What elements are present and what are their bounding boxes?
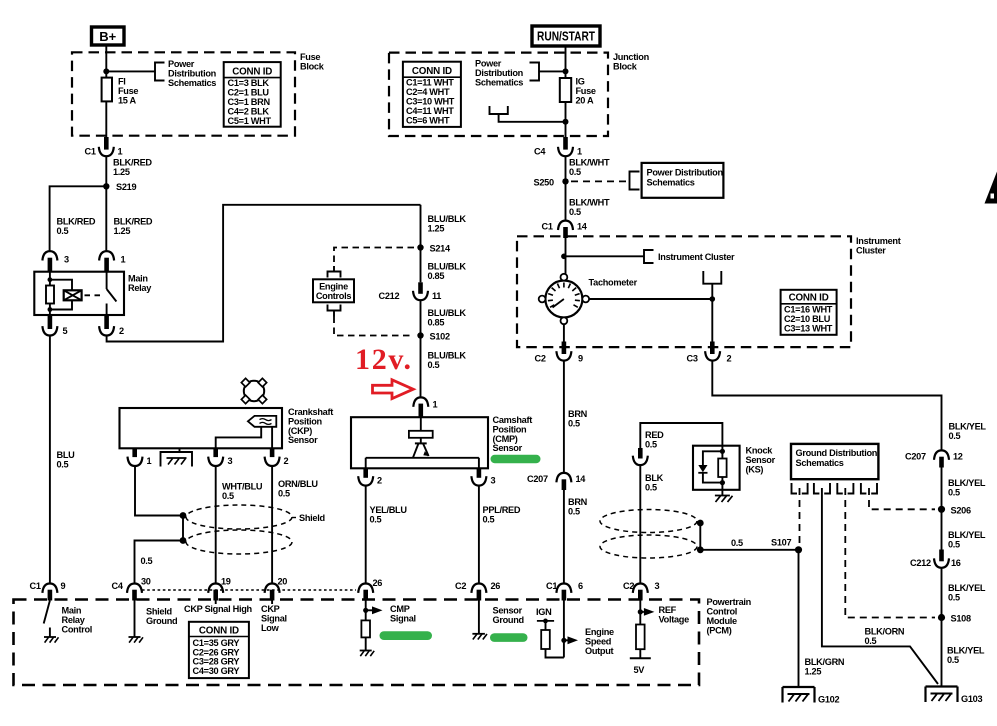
wire shield drain to S107: [700, 549, 798, 551]
svg-text:BLU/BLK: BLU/BLK: [428, 214, 467, 224]
svg-text:0.5: 0.5: [483, 515, 495, 525]
svg-text:S206: S206: [951, 505, 971, 515]
wire B+ down through fuse block: [105, 45, 107, 137]
wire label BLK 0.5: [645, 473, 664, 493]
svg-text:WHT/BLU: WHT/BLU: [222, 482, 263, 492]
CMP internal bus wire: [366, 458, 479, 469]
svg-text:Distribution: Distribution: [475, 68, 524, 78]
svg-text:Ground Distribution: Ground Distribution: [796, 448, 878, 458]
svg-text:C1=11 WHT: C1=11 WHT: [406, 77, 454, 87]
knock sensor internals: piezo + resistor: [698, 446, 726, 490]
PCM engine speed output with IGN pull-up: [536, 601, 614, 658]
svg-text:C1=16 WHT: C1=16 WHT: [784, 305, 833, 315]
wire label BLU/BLK 1.25: [428, 214, 467, 234]
svg-text:C2=10 BLU: C2=10 BLU: [784, 314, 831, 324]
svg-text:CONN ID: CONN ID: [412, 66, 452, 77]
svg-text:Signal: Signal: [261, 614, 287, 624]
node knock shield lower: [697, 546, 704, 553]
svg-text:C1: C1: [30, 581, 41, 591]
svg-text:16: 16: [951, 558, 961, 568]
svg-text:C1=3 BLK: C1=3 BLK: [228, 78, 270, 88]
svg-text:3: 3: [655, 581, 660, 591]
svg-text:C5=6 WHT: C5=6 WHT: [406, 116, 450, 126]
svg-text:Tachometer: Tachometer: [589, 278, 638, 288]
svg-text:YEL/BLU: YEL/BLU: [370, 505, 408, 515]
tachometer gauge: [539, 274, 638, 324]
connector C2 pin 26 (PCM): [455, 581, 500, 601]
svg-text:Relay: Relay: [128, 283, 152, 293]
wire C3 over to right column: [712, 361, 941, 451]
CKP pickup element: [248, 416, 276, 427]
svg-text:IG: IG: [576, 77, 585, 87]
svg-text:BLK/YEL: BLK/YEL: [947, 646, 985, 656]
svg-text:Power: Power: [475, 59, 502, 69]
CONN ID table instrument cluster: [781, 290, 837, 335]
engine controls box: [313, 279, 354, 302]
PCM dashed enclosure: [14, 600, 700, 686]
svg-text:C4: C4: [112, 581, 124, 591]
svg-text:C3=10 WHT: C3=10 WHT: [406, 97, 455, 107]
svg-text:12: 12: [953, 452, 963, 462]
svg-text:BLK/RED: BLK/RED: [57, 217, 96, 227]
wire label BLK/RED 1.25: [114, 217, 153, 237]
wire label YEL/BLU 0.5: [370, 505, 408, 525]
wire label BLK/RED 0.5: [57, 217, 96, 237]
svg-text:0.5: 0.5: [569, 167, 581, 177]
wire harness feed down to CMP sensor: [420, 205, 422, 282]
green highlight under Sensor Ground: [490, 633, 528, 642]
wire CKP pin2 signal low: [271, 466, 273, 583]
svg-text:12v.: 12v.: [355, 343, 413, 376]
svg-text:Control: Control: [62, 625, 93, 635]
svg-text:C5=1 WHT: C5=1 WHT: [228, 116, 272, 126]
node cluster feed tap: [561, 253, 567, 259]
svg-text:14: 14: [576, 474, 587, 484]
splice S108: [938, 614, 971, 624]
svg-text:C212: C212: [910, 558, 931, 568]
svg-text:2: 2: [119, 326, 124, 336]
svg-text:Instrument Cluster: Instrument Cluster: [658, 252, 735, 262]
wire CKP pin3 signal high: [215, 466, 217, 583]
svg-text:1.25: 1.25: [114, 226, 131, 236]
svg-text:S108: S108: [951, 614, 971, 624]
svg-text:Fuse: Fuse: [300, 52, 320, 62]
label Instrument Cluster (outside): [856, 236, 901, 256]
shield drain link: [699, 523, 701, 550]
wire S219 branch left: [50, 186, 107, 251]
ground distribution stub 2: [814, 483, 830, 494]
wire stub2 BLK/ORN to G103: [822, 488, 938, 684]
green highlight under CMP Signal: [380, 631, 433, 640]
svg-text:C3=13 WHT: C3=13 WHT: [784, 324, 833, 334]
wire label BLK/YEL 0.5 (top right): [949, 422, 987, 442]
svg-text:Knock: Knock: [746, 446, 774, 456]
label Powertrain Control Module (PCM): [707, 597, 752, 636]
svg-text:Schematics: Schematics: [475, 78, 523, 88]
PCM main relay control driver: [44, 601, 92, 643]
connector pin 19 (PCM): [208, 577, 231, 601]
svg-text:Shield: Shield: [299, 513, 325, 523]
wire label BLU/BLK 0.5: [428, 351, 467, 371]
svg-text:20: 20: [278, 577, 288, 587]
node tach wire to C3: [710, 296, 716, 302]
power distribution schematics reference box: [642, 163, 724, 198]
svg-text:Instrument: Instrument: [856, 236, 901, 246]
wire label BLK/RED 1.25: [113, 158, 152, 178]
svg-text:0.5: 0.5: [428, 360, 440, 370]
svg-text:Engine: Engine: [585, 627, 614, 637]
svg-text:CMP: CMP: [390, 604, 410, 614]
svg-text:26: 26: [373, 578, 383, 588]
svg-text:5: 5: [63, 326, 68, 336]
svg-text:(PCM): (PCM): [707, 626, 732, 636]
bracket power distribution schematics (fuse block): [155, 63, 165, 81]
svg-text:Sensor: Sensor: [746, 455, 776, 465]
inline connector knock sensor: [633, 448, 648, 465]
node power distribution tap (junction block): [563, 68, 569, 74]
svg-text:3: 3: [491, 476, 496, 486]
svg-text:C2=1 BLU: C2=1 BLU: [228, 87, 270, 97]
wire CMP pin3 to PCM C2-26: [478, 486, 480, 584]
wire C207-14 to PCM C1-6: [563, 490, 565, 583]
svg-text:0.5: 0.5: [57, 460, 69, 470]
svg-text:Control: Control: [707, 607, 738, 617]
knock sensor ground: [715, 490, 733, 502]
camshaft position CMP sensor box: [351, 417, 488, 468]
svg-text:CONN ID: CONN ID: [789, 293, 829, 304]
svg-text:S250: S250: [534, 178, 554, 188]
svg-text:Schematics: Schematics: [647, 178, 695, 188]
wire C1 to S219: [105, 156, 107, 251]
svg-text:IGN: IGN: [536, 607, 552, 617]
crankshaft position CKP sensor box: [120, 408, 283, 448]
connector pin 1 CMP (top): [413, 397, 437, 417]
svg-text:1: 1: [118, 147, 123, 157]
svg-text:Main: Main: [128, 274, 148, 284]
splice S214: [417, 244, 451, 254]
svg-text:1: 1: [433, 400, 438, 410]
svg-text:C212: C212: [379, 291, 400, 301]
cluster internal stub above C3: [703, 271, 721, 284]
svg-text:0.5: 0.5: [278, 489, 290, 499]
connector pin 5 main relay: [42, 315, 67, 336]
svg-text:0.5: 0.5: [645, 483, 657, 493]
connector pin 2 CMP: [358, 468, 382, 485]
svg-text:Controls: Controls: [316, 291, 352, 301]
svg-text:9: 9: [578, 354, 583, 364]
svg-text:26: 26: [491, 581, 501, 591]
wire CKP pin1 shield drain: [135, 466, 184, 583]
CKP internal wires: [216, 427, 272, 449]
connector C1 pin 14 (cluster input): [542, 221, 588, 238]
svg-text:2: 2: [377, 476, 382, 486]
svg-text:Fuse: Fuse: [576, 86, 596, 96]
fuse block dashed enclosure: [72, 52, 295, 135]
svg-text:(KS): (KS): [746, 465, 764, 475]
svg-text:0.5: 0.5: [645, 440, 657, 450]
connector C207 pin 14: [527, 473, 586, 490]
svg-text:BLK/WHT: BLK/WHT: [569, 158, 610, 168]
red annotation arrow: [373, 380, 414, 399]
svg-text:Fuse: Fuse: [118, 86, 138, 96]
svg-text:Junction: Junction: [613, 52, 650, 62]
svg-text:30: 30: [141, 577, 151, 587]
svg-text:C1: C1: [542, 222, 553, 232]
bracket power distribution schematics (junction block): [530, 63, 540, 81]
connector pin 3 CKP: [208, 448, 232, 466]
wire C212 to S102: [420, 300, 422, 397]
svg-text:G103: G103: [961, 694, 982, 704]
svg-text:Block: Block: [300, 62, 325, 72]
wire label RED 0.5: [645, 430, 664, 450]
svg-text:C4=11 WHT: C4=11 WHT: [406, 106, 454, 116]
node shield drain upper: [180, 512, 187, 519]
svg-text:BLK/YEL: BLK/YEL: [948, 530, 986, 540]
wire cluster feed to tachometer: [565, 238, 567, 274]
wire C207-12 to S206: [941, 468, 943, 550]
connector pin 3 main relay: [42, 251, 69, 272]
connector C2 pin 3 (PCM): [623, 581, 660, 601]
svg-text:Ground: Ground: [146, 616, 177, 626]
svg-text:1: 1: [147, 456, 152, 466]
wire label BLK/YEL 0.5: [947, 646, 985, 666]
svg-text:1: 1: [577, 147, 582, 157]
svg-text:BLU/BLK: BLU/BLK: [428, 308, 467, 318]
svg-text:BLK/ORN: BLK/ORN: [865, 627, 905, 637]
shield ellipses around knock wire: [600, 510, 697, 559]
connector pin 1 CKP: [128, 448, 152, 466]
svg-text:BLU/BLK: BLU/BLK: [428, 262, 467, 272]
wire S107 to G102: [798, 550, 800, 687]
wire label BLK/YEL 0.5: [948, 530, 986, 550]
splice S206: [938, 505, 971, 515]
instrument cluster dashed enclosure: [517, 236, 851, 347]
connector pin 1 main relay: [99, 251, 125, 272]
svg-text:S219: S219: [116, 182, 136, 192]
svg-text:1: 1: [121, 255, 126, 265]
svg-text:Speed: Speed: [585, 637, 611, 647]
engine controls dashed branch: [334, 248, 414, 267]
wire label BLK/YEL 0.5: [948, 583, 986, 603]
svg-text:Relay: Relay: [62, 615, 86, 625]
wire RUN/START down through junction block: [565, 46, 567, 137]
svg-text:Signal: Signal: [390, 614, 416, 624]
svg-text:CKP: CKP: [261, 604, 280, 614]
dashed wire stub3 to S108: [845, 488, 935, 618]
svg-text:C4=2 BLK: C4=2 BLK: [228, 107, 270, 117]
svg-text:B+: B+: [99, 29, 116, 44]
svg-text:REF: REF: [659, 605, 677, 615]
svg-text:Low: Low: [261, 623, 280, 633]
svg-text:C1: C1: [546, 581, 557, 591]
wire C212-16 to S108: [941, 568, 943, 687]
relay actuator box with X: [64, 290, 103, 300]
bracket to power distribution schematics box: [630, 172, 640, 190]
svg-text:BLK/YEL: BLK/YEL: [948, 478, 986, 488]
svg-text:14: 14: [577, 222, 588, 232]
svg-text:C3=1 BRN: C3=1 BRN: [228, 97, 271, 107]
svg-text:Sensor: Sensor: [493, 606, 523, 616]
svg-text:0.5: 0.5: [731, 538, 743, 548]
svg-text:S102: S102: [430, 332, 450, 342]
bracket instrument cluster reference: [644, 250, 654, 263]
svg-text:3: 3: [228, 456, 233, 466]
svg-text:0.5: 0.5: [370, 515, 382, 525]
svg-text:C2: C2: [623, 581, 634, 591]
connector C1 pin 6 (PCM): [546, 581, 583, 601]
shield drain link between nodes: [182, 516, 184, 541]
ground distribution stub 1: [792, 483, 808, 494]
svg-text:0.5: 0.5: [949, 431, 961, 441]
wire label BLK/GRN 1.25: [805, 657, 845, 677]
wire label BLK/WHT 0.5: [569, 198, 610, 218]
wire label BRN 0.5: [568, 497, 588, 517]
svg-text:Schematics: Schematics: [796, 458, 844, 468]
svg-text:3: 3: [64, 255, 69, 265]
svg-text:Voltage: Voltage: [659, 615, 690, 625]
green highlight under Sensor label: [491, 455, 541, 463]
svg-text:BLK/RED: BLK/RED: [114, 217, 153, 227]
svg-text:C3: C3: [687, 354, 698, 364]
connector C4 pin 1 (junction block output): [534, 137, 582, 157]
svg-text:RUN/START: RUN/START: [537, 29, 595, 44]
svg-text:0.5: 0.5: [57, 226, 69, 236]
svg-text:0.5: 0.5: [947, 655, 959, 665]
label Junction Block: [613, 52, 650, 72]
wire label BLU/BLK 0.85: [428, 308, 467, 328]
svg-text:Cluster: Cluster: [856, 246, 886, 256]
svg-text:BLK/YEL: BLK/YEL: [948, 583, 986, 593]
svg-text:Power Distribution: Power Distribution: [647, 168, 724, 178]
svg-text:S214: S214: [430, 244, 451, 254]
CKP internal case ground: [161, 448, 193, 466]
svg-text:Distribution: Distribution: [168, 69, 217, 79]
svg-text:Module: Module: [707, 616, 738, 626]
svg-text:1.25: 1.25: [113, 167, 130, 177]
ground distribution schematics box: [791, 444, 878, 479]
wire tachometer right to C3: [589, 298, 712, 300]
PCM CKP signal high input: [184, 601, 253, 615]
svg-text:BLU: BLU: [57, 450, 76, 460]
relay coil: [46, 272, 72, 315]
CONN ID table junction block: [403, 62, 461, 127]
wire relay pin5 down to PCM: [49, 336, 51, 584]
wire tap to schematics bracket: [106, 70, 155, 72]
wire C4 to cluster: [565, 156, 567, 220]
ground G102: [783, 687, 840, 705]
svg-text:19: 19: [221, 577, 231, 587]
CMP hall element: [409, 417, 433, 443]
connector pin 2 CKP: [265, 448, 289, 466]
wire label BLU 0.5: [57, 450, 76, 470]
main relay K1 box: [34, 272, 124, 315]
wire label BLK/YEL 0.5: [948, 478, 986, 498]
connector C1 pin 1 (fuse block output): [85, 137, 123, 157]
battery feed B+ terminal box: [92, 27, 125, 45]
ground G103: [926, 687, 983, 705]
wire label BLK/WHT 0.5: [569, 158, 610, 178]
svg-text:C2: C2: [455, 581, 466, 591]
svg-text:0.5: 0.5: [948, 593, 960, 603]
svg-text:C2=4 WHT: C2=4 WHT: [406, 87, 450, 97]
PCM CKP signal low input: [261, 601, 287, 634]
svg-text:0.5: 0.5: [568, 419, 580, 429]
connector pin 26 (PCM): [358, 578, 382, 601]
svg-text:BLK/RED: BLK/RED: [113, 158, 152, 168]
svg-text:20 A: 20 A: [576, 96, 595, 106]
ground distribution stub 4: [861, 483, 877, 494]
svg-text:Power: Power: [168, 59, 195, 69]
wire tachometer bottom to C2: [563, 324, 565, 341]
dashed wire stub1 to S107: [799, 488, 801, 546]
ground distribution stub 3: [837, 483, 853, 494]
svg-text:BLK/WHT: BLK/WHT: [569, 198, 610, 208]
svg-text:BLK: BLK: [645, 473, 664, 483]
svg-text:1.25: 1.25: [428, 224, 445, 234]
PCM sensor ground: [472, 601, 523, 640]
svg-text:Block: Block: [613, 62, 638, 72]
svg-text:0.5: 0.5: [141, 556, 153, 566]
node knock shield upper: [697, 520, 704, 527]
dashed wire stub4 to S206: [869, 488, 935, 509]
connector pin 3 CMP: [471, 468, 495, 485]
svg-text:BRN: BRN: [568, 497, 588, 507]
svg-text:BLK/GRN: BLK/GRN: [805, 657, 845, 667]
fuse FI 15A: [102, 77, 139, 106]
wire relay pin2 loop to engine harness: [107, 205, 421, 342]
PCM shield ground: [129, 601, 178, 643]
svg-text:1.25: 1.25: [805, 667, 822, 677]
engine controls lower stub: [328, 305, 341, 317]
svg-text:Ground: Ground: [493, 615, 524, 625]
svg-text:15 A: 15 A: [118, 96, 137, 106]
reluctor wheel symbol: [241, 378, 266, 403]
dashed reference wire S250 to schematics box: [571, 180, 626, 182]
svg-text:0.5: 0.5: [948, 488, 960, 498]
svg-text:0.85: 0.85: [428, 318, 445, 328]
svg-text:Schematics: Schematics: [168, 78, 216, 88]
svg-text:C207: C207: [905, 452, 926, 462]
wire knock return down to PCM C2-3: [639, 465, 641, 583]
PCM REF voltage circuit: [630, 601, 689, 676]
wire label WHT/BLU 0.5: [222, 482, 263, 502]
svg-text:Sensor: Sensor: [288, 435, 318, 445]
splice S219: [103, 182, 136, 192]
svg-text:Output: Output: [585, 646, 614, 656]
connector C212 pin 11: [379, 282, 442, 301]
shield ellipses around CKP signal wires: [186, 505, 325, 554]
connector C212 pin 16: [910, 550, 961, 569]
CONN ID table fuse block: [224, 62, 281, 127]
connector pin 2 main relay: [99, 315, 124, 336]
wire label PPL/RED 0.5: [483, 505, 521, 525]
connector C207 pin 12: [905, 450, 963, 467]
svg-text:C1: C1: [85, 147, 96, 157]
svg-text:S107: S107: [771, 538, 791, 548]
connector C4 pin 30 (PCM): [112, 577, 151, 601]
label Fuse Block: [300, 52, 325, 72]
wire tap to cluster bracket: [564, 255, 644, 257]
svg-text:2: 2: [284, 456, 289, 466]
svg-text:0.5: 0.5: [569, 207, 581, 217]
knock sensor KS box: [693, 446, 740, 490]
connector pin 20 (PCM): [265, 577, 288, 601]
svg-text:RED: RED: [645, 430, 664, 440]
svg-text:BLK/YEL: BLK/YEL: [949, 422, 987, 432]
svg-text:G102: G102: [818, 695, 839, 705]
svg-text:11: 11: [432, 291, 441, 301]
junction block dashed enclosure: [389, 53, 608, 136]
